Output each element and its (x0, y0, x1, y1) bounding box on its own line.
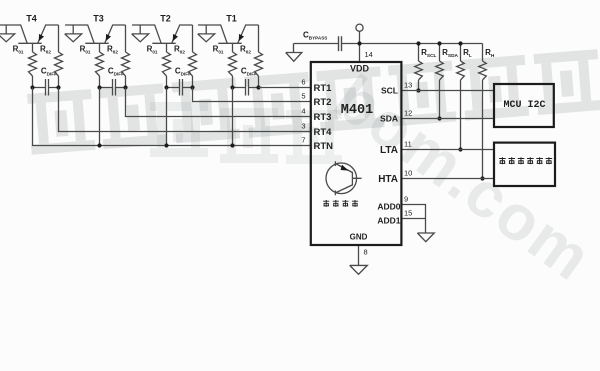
transistor T2 (132, 25, 193, 43)
junction rail-RSDA (437, 41, 441, 45)
svg-text:4: 4 (301, 106, 305, 115)
wire T1 right node to pin 6 RT1 (259, 87, 311, 89)
capacitor CDIFF of T1 (233, 79, 259, 96)
junction rail-RL (458, 41, 462, 45)
junction RH bottom (480, 176, 484, 180)
wire T3 right node to pin 4 RT3 (126, 88, 311, 117)
VDD supply terminal (356, 24, 363, 31)
capacitor CBYPASS (339, 36, 342, 51)
svg-text:SCL: SCL (381, 86, 398, 96)
svg-text:ADD1: ADD1 (377, 215, 400, 225)
svg-text:T1: T1 (226, 14, 237, 24)
svg-text:8: 8 (364, 248, 368, 257)
junction RL bottom (458, 147, 462, 151)
ground (198, 25, 215, 42)
capacitor CDIFF of T2 (167, 79, 193, 96)
resistor RH (479, 44, 487, 179)
svg-text:MCU I2C: MCU I2C (503, 100, 545, 111)
thermal protection switch block 过热保护开关 (494, 143, 555, 186)
svg-text:GND: GND (350, 233, 368, 242)
wire T2 right node to pin 5 RT2 (193, 88, 311, 102)
wire RTN bus to pin 7 (33, 88, 311, 146)
resistor R02 of T2 (189, 25, 197, 88)
svg-text:10: 10 (404, 168, 412, 177)
resistor R01 of T4 (29, 43, 37, 87)
node T3 left junction (97, 85, 101, 89)
svg-text:12: 12 (404, 108, 412, 117)
resistor R02 of T4 (55, 25, 63, 88)
svg-text:T4: T4 (26, 14, 37, 24)
resistor RL (457, 44, 465, 150)
wire HTA to switch (401, 178, 494, 180)
svg-text:SDA: SDA (380, 114, 398, 124)
svg-text:RT3: RT3 (314, 112, 332, 123)
resistor RSCL (415, 44, 423, 91)
wire VDD terminal to pin 14 (359, 31, 361, 62)
node T4 left junction (30, 85, 34, 89)
junction RSDA bottom (437, 116, 441, 120)
svg-text:M401: M401 (341, 103, 373, 118)
svg-text:14: 14 (365, 50, 373, 59)
node T1 right junction (256, 85, 260, 89)
node T4 right junction (56, 85, 60, 89)
svg-text:HTA: HTA (378, 174, 398, 185)
wire top supply rail (294, 43, 483, 45)
svg-text:VDD: VDD (350, 64, 370, 74)
junction RSCL bottom (416, 88, 420, 92)
junction rail-RSCL (416, 41, 420, 45)
internal temperature sensor transistor (326, 161, 362, 195)
node T1 left junction (230, 85, 234, 89)
resistor R01 of T3 (96, 43, 104, 87)
ground (132, 25, 149, 42)
label 片内温度 (323, 200, 358, 207)
svg-text:ADD0: ADD0 (377, 201, 400, 211)
MCU I2C block (494, 84, 554, 127)
svg-text:13: 13 (404, 80, 412, 89)
wire GND pin 8 to ground (358, 245, 360, 265)
transistor T4 (0, 25, 59, 43)
resistor R02 of T3 (122, 25, 130, 88)
transistor T3 (65, 25, 126, 43)
node T3 right junction (123, 85, 127, 89)
resistor RSDA (436, 44, 444, 119)
svg-text:T3: T3 (93, 14, 104, 24)
ground (bypass) (286, 44, 302, 62)
wire ADD0/ADD1 to ground (401, 205, 425, 234)
junction RTN-T1 (230, 143, 234, 147)
svg-text:LTA: LTA (380, 145, 398, 156)
svg-text:RT4: RT4 (314, 127, 333, 138)
ground (ADD pins) (417, 233, 434, 242)
node T2 left junction (164, 85, 168, 89)
capacitor CDIFF of T3 (100, 79, 126, 96)
capacitor CDIFF of T4 (33, 79, 59, 96)
svg-text:15: 15 (404, 208, 412, 217)
svg-text:RT1: RT1 (314, 83, 333, 94)
svg-text:RT2: RT2 (314, 97, 332, 108)
wire SDA to MCU (401, 118, 494, 120)
node T2 right junction (190, 85, 194, 89)
transistor T1 (198, 25, 259, 43)
junction RTN-T2 (164, 143, 168, 147)
svg-text:3: 3 (301, 121, 305, 130)
svg-text:T2: T2 (160, 14, 171, 24)
wire T4 right node to pin 3 RT4 (59, 88, 311, 132)
wire SCL to MCU (401, 90, 494, 92)
junction VDD rail (357, 41, 361, 45)
svg-text:11: 11 (404, 139, 412, 148)
svg-text:5: 5 (301, 91, 305, 100)
resistor R01 of T1 (229, 43, 237, 87)
svg-text:7: 7 (301, 135, 305, 144)
svg-text:9: 9 (404, 194, 408, 203)
ground (65, 25, 82, 42)
svg-text:6: 6 (301, 77, 305, 86)
ground (GND) (350, 265, 368, 274)
ground (0, 25, 15, 42)
resistor R02 of T1 (255, 25, 263, 88)
resistor R01 of T2 (163, 43, 171, 87)
IC U1 M401 body (311, 62, 402, 245)
junction RTN-T3 (97, 143, 101, 147)
svg-text:RTN: RTN (314, 141, 334, 152)
wire LTA to switch (401, 149, 494, 151)
